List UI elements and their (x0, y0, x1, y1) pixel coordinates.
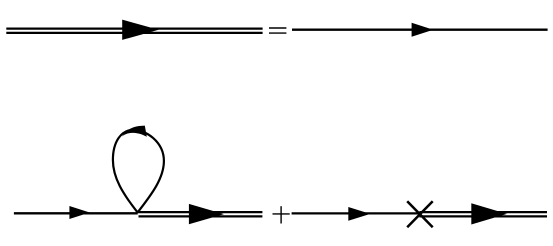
cross: mass insertion X stroke 1 (407, 201, 433, 227)
equals sign upper bar (269, 27, 286, 29)
wire: outgoing double line lower (bottom-left) (139, 215, 263, 217)
arrow: curved arrowhead on tadpole loop top (122, 126, 147, 137)
wire: incoming single line (bottom-left diagram) (14, 212, 138, 214)
arrow: small arrowhead on bare propagator (top-right) (412, 23, 434, 37)
arrow: large arrowhead on dressed propagator (top-left) (122, 20, 158, 40)
wire: bare propagator single line (top-right) (292, 29, 548, 31)
wire: incoming single line (bottom-right diagram) (292, 212, 420, 214)
arrow: large arrowhead on outgoing double line (bottom-right) (471, 203, 507, 224)
cross: mass insertion X stroke 2 (407, 201, 433, 227)
wire: dressed propagator double line lower (top-left) (6, 32, 262, 34)
equals sign lower bar (269, 32, 286, 34)
wire: outgoing double line upper (bottom-right) (419, 211, 547, 213)
plus sign horizontal bar (273, 213, 290, 215)
wire: dressed propagator double line upper (top-left) (6, 28, 262, 30)
arrow: small arrowhead on incoming line (bottom-right) (348, 207, 370, 221)
arrow: small arrowhead on incoming line (bottom-left) (69, 206, 89, 219)
wire: outgoing double line lower (bottom-right) (419, 215, 547, 217)
plus sign vertical bar (280, 206, 282, 223)
wire: outgoing double line upper (bottom-left) (138, 211, 263, 213)
arrow: large arrowhead on outgoing double line (bottom-left) (189, 204, 224, 224)
loop: tadpole teardrop loop (113, 130, 164, 213)
